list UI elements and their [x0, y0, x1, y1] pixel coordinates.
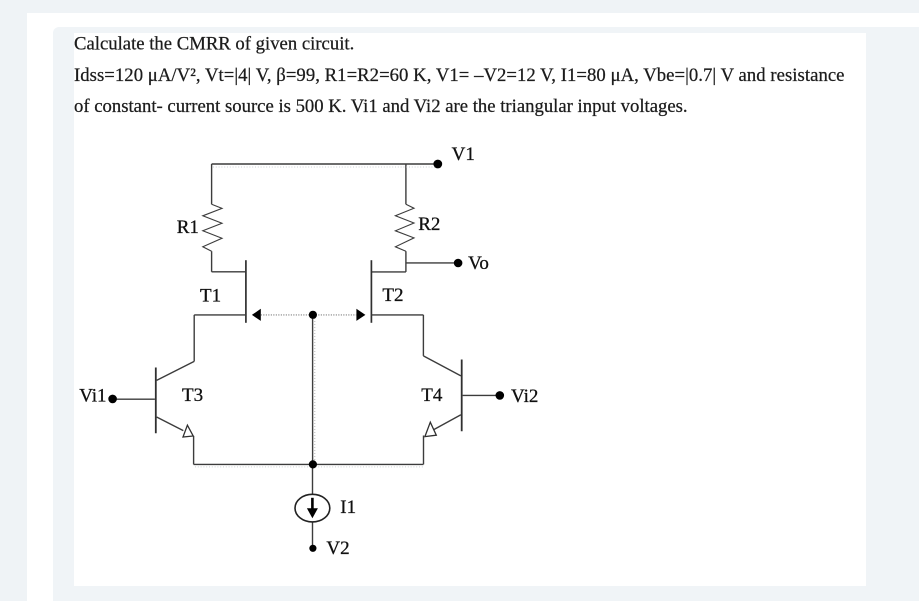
svg-text:Idss=120 μA/V², Vt=|4| V, β=99: Idss=120 μA/V², Vt=|4| V, β=99, R1=R2=60… — [74, 65, 845, 86]
wire: T3 collector vertical — [193, 315, 195, 362]
node tail rail junction dot — [309, 460, 317, 468]
transistor T1 channel bar — [245, 260, 247, 323]
resistor R1 — [203, 204, 222, 251]
current source I1 — [295, 494, 330, 522]
resistor R2 — [395, 204, 414, 251]
transistor T2 channel bar — [370, 260, 372, 323]
wire: current source top lead — [312, 464, 314, 494]
wire: current source bottom lead — [312, 522, 314, 545]
wire: bottom rail echo — [195, 466, 423, 468]
wire: bottom rail — [194, 463, 424, 465]
wire: T4 emitter tail — [423, 436, 425, 465]
svg-text:T4: T4 — [421, 385, 443, 406]
wire: top rail echo — [213, 166, 436, 168]
svg-text:Vi1: Vi1 — [79, 385, 106, 406]
wire: left drop to R1 top — [211, 164, 213, 204]
wire: T3 base lead from Vi1 — [113, 398, 155, 400]
wire: T2 drain — [372, 271, 406, 273]
transistor T4 base bar — [461, 360, 463, 432]
question white image area — [74, 33, 866, 586]
wire: centre tail vertical — [312, 315, 314, 465]
wire: T4 base lead to Vi2 — [463, 394, 496, 396]
node common gate junction dot — [309, 311, 317, 319]
svg-text:of constant- current source is: of constant- current source is 500 K. Vi… — [74, 96, 688, 117]
wire: centre tail dotted companion — [314, 318, 316, 462]
svg-text:Calculate the CMRR of given ci: Calculate the CMRR of given circuit. — [74, 33, 354, 54]
current source I1 arrow shaft — [311, 498, 314, 509]
svg-text:Vi2: Vi2 — [511, 386, 538, 407]
wire: Vo branch — [406, 262, 454, 264]
svg-text:I1: I1 — [340, 497, 356, 518]
svg-text:T3: T3 — [182, 385, 203, 406]
transistor T4 emitter arrow — [425, 422, 436, 436]
wire: T3 collector diagonal — [157, 361, 195, 380]
wire: R2 bottom lead — [405, 251, 407, 272]
wire: R1 bottom lead — [211, 251, 213, 272]
transistor T3 base bar — [155, 368, 157, 434]
transistor T3 emitter arrow — [183, 425, 193, 437]
svg-text:R2: R2 — [418, 214, 440, 235]
svg-text:Vo: Vo — [468, 253, 489, 274]
svg-text:T2: T2 — [382, 285, 403, 306]
svg-text:T1: T1 — [200, 285, 221, 306]
svg-text:V1: V1 — [452, 144, 475, 165]
wire: common gate dotted link — [261, 314, 356, 316]
wire: T3 emitter tail — [193, 436, 195, 465]
svg-text:V2: V2 — [326, 538, 349, 559]
wire: T3 emitter diagonal — [157, 417, 184, 431]
wire: T2 source to right corner — [371, 314, 423, 316]
transistor T1 gate arrow — [252, 309, 261, 321]
svg-text:R1: R1 — [177, 217, 199, 238]
wire: T4 collector vertical — [422, 315, 424, 356]
node Vo dot — [454, 259, 463, 268]
current source I1 arrow head — [307, 508, 318, 518]
wire: T4 collector diagonal — [423, 356, 461, 376]
wire: R2 top lead — [405, 164, 407, 204]
node V1 dot — [433, 160, 442, 169]
transistor T2 gate arrow — [356, 309, 365, 321]
wire: T4 emitter diagonal — [434, 415, 461, 430]
wire: top rail V1 — [212, 163, 435, 165]
node Vi1 dot — [108, 395, 117, 404]
node V2 dot — [309, 545, 316, 552]
wire: T1 source to left corner — [194, 314, 246, 316]
wire: T1 drain — [212, 271, 246, 273]
node Vi2 dot — [496, 391, 505, 400]
